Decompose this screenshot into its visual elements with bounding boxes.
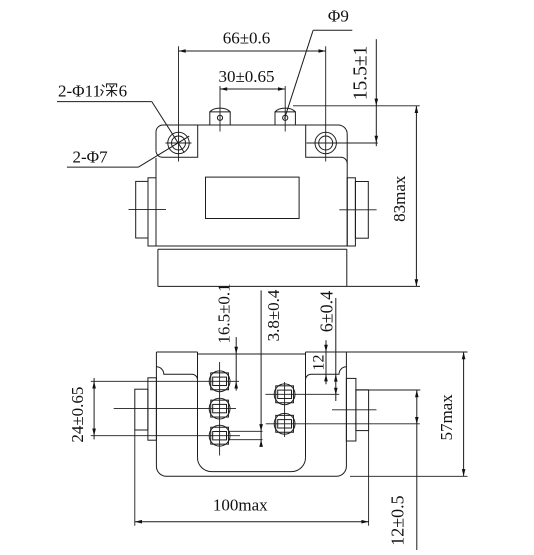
left hole vertical centerline / 66-dim extension	[178, 46, 180, 161]
body/base seam upper line	[156, 245, 347, 247]
dimension 12 (recess depth)	[325, 340, 327, 384]
base bottom edge + 83max extension	[158, 285, 420, 287]
inner contour right vertical	[305, 352, 307, 458]
head outline top-left corner	[156, 125, 163, 151]
left plunger sides	[210, 112, 230, 125]
right boss centerline	[339, 209, 376, 211]
left plunger centerline	[219, 86, 221, 132]
bottom view outer outline	[156, 352, 346, 476]
svg-text:2-Φ11: 2-Φ11	[58, 81, 101, 100]
left boss inner step (bottom view)	[148, 378, 157, 440]
svg-text:2-Φ7: 2-Φ7	[73, 148, 109, 167]
dimension 83max	[415, 106, 417, 287]
right plunger sides	[275, 112, 295, 125]
dimension 15.5±1	[293, 105, 420, 107]
terminal screw R2	[274, 413, 295, 434]
right boss outer step	[355, 182, 368, 239]
base right edge	[346, 249, 348, 286]
right boss inner step	[347, 178, 355, 246]
base left edge	[157, 249, 159, 286]
screw L1 centerline / 24-dim extension	[91, 380, 239, 382]
terminal screw L3	[209, 425, 230, 446]
svg-text:24±0.65: 24±0.65	[68, 387, 87, 443]
terminal screw L1	[209, 371, 230, 392]
svg-text:16.5±0.1: 16.5±0.1	[215, 283, 234, 343]
body/base seam lower line	[158, 248, 347, 250]
screw L3 centerline / 24-dim extension	[91, 435, 240, 437]
right ear hole outer circle	[315, 132, 336, 153]
right hole horizontal centerline / 15.5-dim extension	[307, 142, 378, 144]
left boss centerline	[129, 209, 167, 211]
left ear pad lower edge	[156, 125, 198, 157]
right screw column centerline	[284, 382, 286, 437]
svg-text:66±0.6: 66±0.6	[223, 29, 271, 48]
right hole vertical centerline / 66-dim extension	[325, 46, 327, 161]
inner contour top-left S curve	[156, 367, 197, 380]
left plunger dome	[210, 108, 230, 112]
screw R2 centerline / 12±0.5 extension	[266, 423, 420, 425]
svg-text:100max: 100max	[213, 496, 268, 515]
bottom view top edges + 57max extension	[156, 352, 467, 354]
dimension 16.5±0.1	[235, 337, 237, 391]
right plunger pin circle	[283, 115, 288, 120]
dimension 24±0.65	[93, 378, 95, 439]
terminal screw L2	[209, 398, 230, 419]
right boss centerline (bottom view)	[332, 409, 377, 411]
right plunger centerline	[284, 86, 286, 132]
inner contour left vertical	[197, 352, 199, 458]
svg-text:12: 12	[310, 355, 327, 371]
dimension 66±0.6	[179, 50, 326, 52]
left boss outer step	[136, 181, 148, 238]
svg-text:57max: 57max	[437, 394, 456, 441]
svg-text:83max: 83max	[390, 175, 409, 222]
right boss outer step (bottom view)	[356, 390, 369, 431]
terminal screw R1	[274, 384, 295, 405]
dimension 100max	[134, 430, 136, 526]
svg-text:Φ9: Φ9	[328, 6, 349, 25]
screw L3 slot top extension (3.8 dim)	[229, 430, 263, 432]
left screw column centerline	[219, 362, 221, 456]
dimension 6±0.4	[335, 298, 337, 401]
screw R1 centerline / 6-dim extension	[265, 393, 339, 395]
left plunger pin circle	[217, 115, 222, 120]
label plate rectangle	[206, 177, 300, 218]
switch body outline right+top	[163, 125, 347, 246]
dimension 12±0.5	[356, 389, 420, 391]
svg-text:3.8±0.4: 3.8±0.4	[264, 289, 283, 341]
dimension 57max	[350, 475, 468, 477]
right boss inner step (bottom view)	[346, 378, 356, 441]
left ear hole inner circle	[172, 136, 186, 150]
right ear pad lower edge	[306, 125, 348, 163]
screw L3 slot bottom extension (3.8 dim)	[229, 439, 263, 441]
svg-text:6±0.4: 6±0.4	[317, 291, 337, 332]
right plunger dome	[275, 108, 295, 112]
screw L2 centerline / boss centerline	[114, 408, 236, 410]
right ear hole inner circle	[319, 136, 333, 150]
svg-text:15.5±1: 15.5±1	[351, 46, 372, 101]
left hole horizontal centerline	[166, 142, 192, 144]
svg-text:12±0.5: 12±0.5	[388, 495, 408, 545]
inner contour top-right S curve	[306, 367, 347, 380]
left boss inner step	[148, 178, 156, 246]
left boss outer step (bottom view)	[135, 389, 148, 430]
dimension 3.8±0.4	[260, 290, 262, 445]
dimension 30±0.65	[220, 88, 285, 90]
left ear hole outer circle	[168, 132, 189, 153]
svg-text:30±0.65: 30±0.65	[218, 67, 274, 86]
svg-text:6: 6	[119, 81, 128, 100]
body left edge	[155, 158, 157, 246]
inner contour bottom	[198, 458, 306, 472]
